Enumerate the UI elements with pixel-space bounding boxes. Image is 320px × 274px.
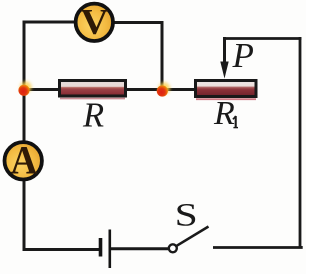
ammeter U-A [5, 142, 42, 179]
wire: left vertical from top corner down to bottom wire [23, 21, 26, 251]
node A: red junction dot left [20, 81, 32, 93]
svg-text:S: S [175, 198, 198, 234]
resistor R [60, 81, 126, 97]
wire: middle horizontal from node A through R to node B to R1 [24, 88, 195, 91]
wire: top-left horizontal from left corner to voltmeter [23, 21, 96, 24]
node B: red junction dot right [159, 82, 171, 94]
label S [175, 198, 198, 234]
battery: long thin plate (positive) [109, 230, 112, 269]
switch S: pivot circle [169, 244, 177, 252]
resistor R red underglow [60, 98, 125, 100]
resistor R1 red underglow [196, 98, 256, 100]
wiper arrowhead of P [220, 62, 228, 79]
battery: short thick plate (negative) [99, 238, 103, 257]
svg-text:R: R [82, 97, 104, 135]
svg-text:A: A [11, 138, 38, 183]
wire: vertical from top wire down to node B [161, 22, 164, 91]
switch S: lever arm [176, 227, 209, 247]
wire: bottom horizontal left segment to battery [23, 248, 100, 251]
wire: wiper top horizontal [223, 37, 301, 40]
wire: top horizontal from voltmeter to right corner at x=162 [95, 21, 164, 24]
svg-text:P: P [232, 36, 254, 75]
wire: wiper vertical stem [223, 37, 226, 66]
resistor R1 (rheostat track) [196, 81, 257, 97]
wire: right vertical [299, 37, 302, 248]
wire: bottom horizontal between battery and switch [110, 247, 170, 250]
svg-text:V: V [81, 2, 109, 42]
wire: bottom horizontal from switch to right corner [213, 246, 301, 248]
voltmeter U-V [76, 4, 113, 41]
svg-text:R: R [213, 95, 235, 132]
